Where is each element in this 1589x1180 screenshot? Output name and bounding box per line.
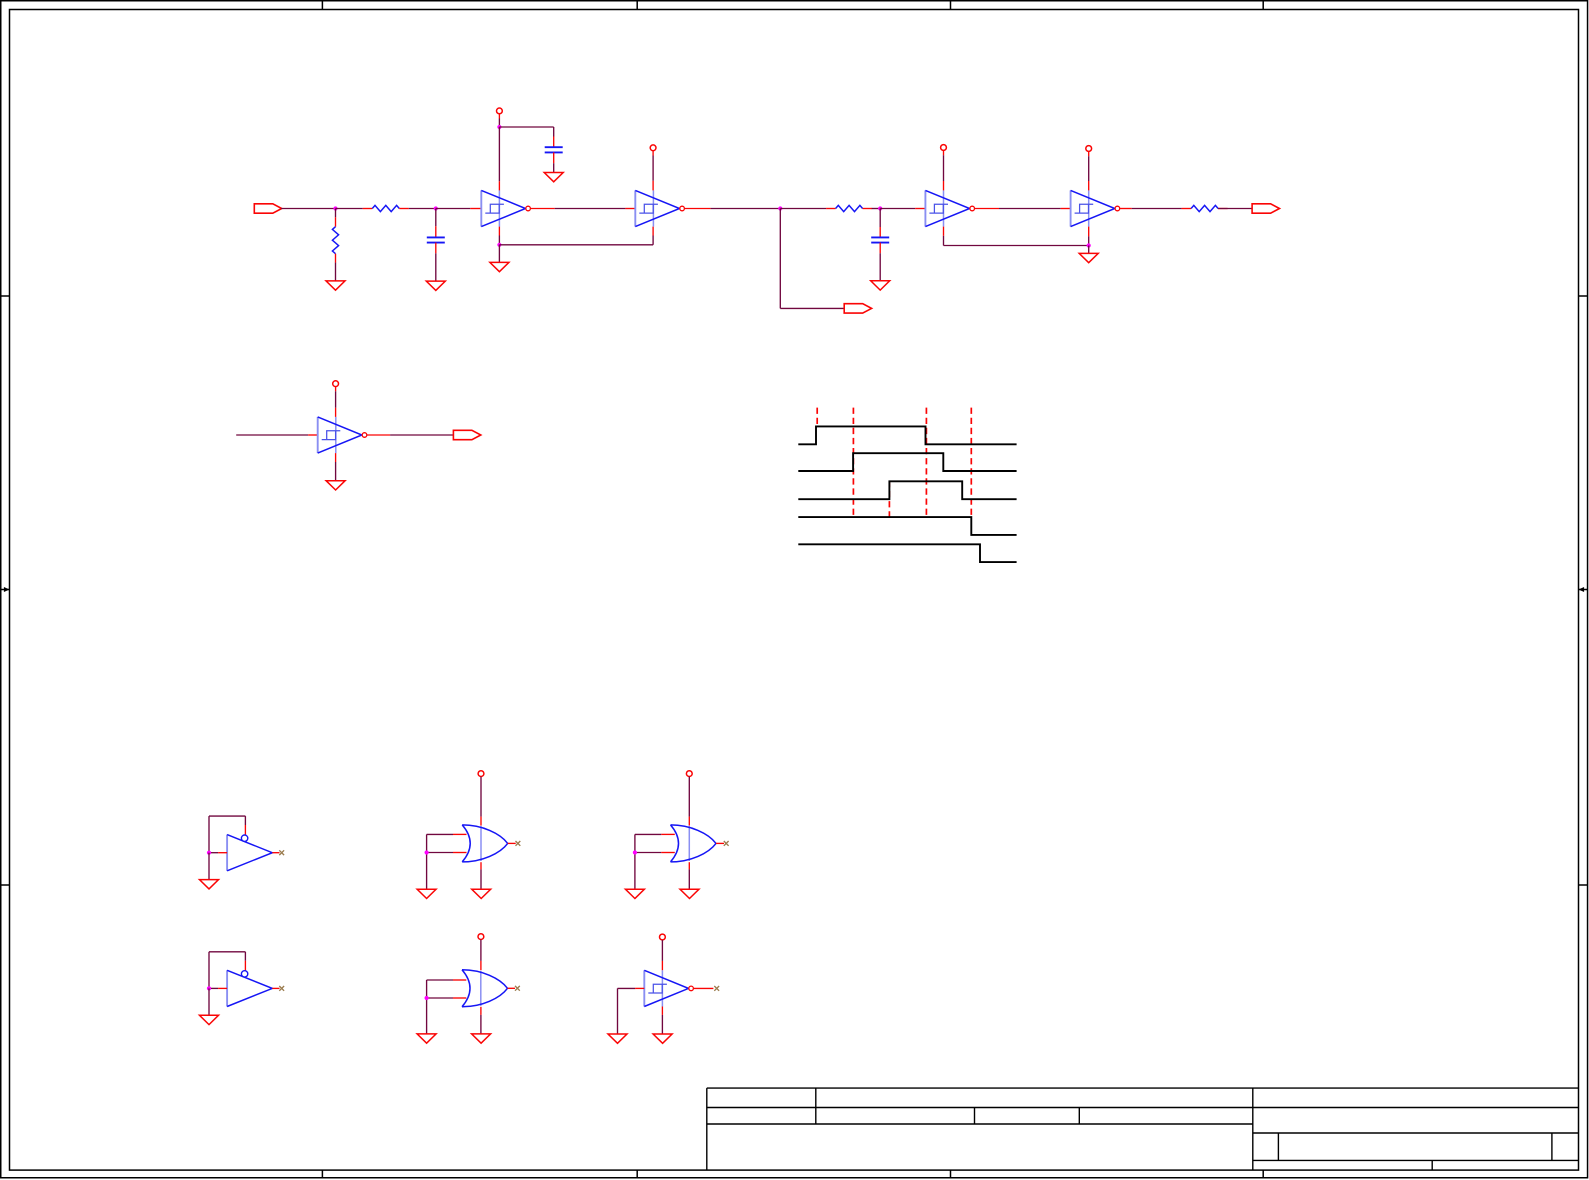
wire inputs tied down [426,980,428,1034]
wire U5B gnd to ground [688,869,690,889]
junction node E [778,206,782,210]
wire R2 to ground [335,263,337,281]
wire U3A gnd to ground [335,462,337,481]
wire node F to U2A input [880,208,915,210]
wire VCC to U2B vcc pin [1088,156,1090,181]
timing diagram [798,408,1016,562]
ground under C1 [426,281,445,290]
wire U5C input 2 [427,997,453,999]
pin U4A enable [244,825,246,835]
wire inputs tied down [426,834,428,889]
ground under U3A [326,481,345,490]
wire VCC to U1B vcc pin [652,156,654,181]
resistor R2 shunt [332,217,338,262]
pin U5B input 2 [661,852,675,854]
wire U1B out to node E [711,208,781,210]
wire input tied down [617,988,619,1034]
ground under R2 [326,281,345,290]
wire U2B out to R4 [1132,208,1182,210]
wire C3 to ground [879,253,881,281]
pin U2B power [1088,152,1090,157]
pin U2B output [1120,208,1132,210]
junction U5A input node [425,850,429,854]
pin U1B input [625,208,635,210]
ground under U2B [1079,253,1098,262]
wire VCC to U3A vcc pin [335,391,337,408]
wire U2A gnd to node G [944,245,1089,247]
schmitt buffer U3A [318,417,367,453]
wire VCC to node C [498,119,500,128]
ground under U5B inputs [625,889,644,898]
wire node C to C2 [499,126,553,128]
pin U4B output (no connect) [272,987,279,989]
wire U1A out to U1B in [555,208,626,210]
pin U5B gnd [688,862,690,869]
pin U3A vcc [335,408,337,417]
pin U5C vcc [480,961,482,970]
pin U2A input [915,208,925,210]
wire down to ground [208,853,210,880]
ground under C3 [871,281,890,290]
schmitt buffer U1B [635,190,684,226]
waveform 3 [798,481,1016,499]
wire U5B input 2 [635,852,661,854]
pin U5B input 1 [661,833,675,835]
pin U1B vcc [652,181,654,191]
junction node F [878,206,882,210]
timing cursor t5 [970,408,972,517]
ground under U6A [653,1034,672,1043]
pin U5A input 1 [453,833,467,835]
schmitt buffer U6A [644,970,693,1006]
inverter U4A [227,835,272,871]
pin U1B power [652,151,654,156]
pin U3A power [335,387,337,392]
VCC power pin of U5C [478,934,484,940]
pin U4B enable [244,961,246,971]
inverter U4B [227,970,272,1006]
wire to U4A input [209,852,218,854]
pin U2A vcc [943,181,945,190]
pin U6A input [635,987,644,989]
or gate U5A [462,825,508,862]
pin U1A input [470,208,481,210]
junction node B [434,206,438,210]
wire VCC to U2A vcc pin [943,155,945,181]
wire U5A input 2 [427,852,453,854]
wire VCC to U6A [661,940,663,961]
wire U2A gnd down [943,236,945,246]
pin U1A vcc [498,181,500,190]
pin U3A output [367,434,390,436]
wire feedback down [244,816,246,825]
or gate U5B [671,825,717,862]
ground under U5B [680,889,699,898]
junction U5C input node [425,996,429,1000]
pin U6A output (no connect) [694,987,714,989]
wire U2A out to U2B in [999,208,1061,210]
junction U4A input node [207,851,211,855]
wire node E to R3 [780,208,826,210]
resistor R1 series [363,205,409,211]
junction node G [1087,243,1091,247]
wire node E down [779,209,781,309]
port P4 output [453,430,480,439]
VCC power pin of U2A [941,145,947,151]
wire R1 to node B [409,208,436,210]
VCC power pin of U1B [650,145,656,151]
capacitor C1 [427,237,445,242]
wire U2B gnd down [1088,236,1090,245]
junction U5B input node [633,850,637,854]
timing cursor t4 [925,408,927,517]
wire U5B input 1 [635,833,661,835]
wire U6A gnd to ground [661,1015,663,1034]
pin U5A gnd [480,862,482,869]
ground under U1A [490,262,509,271]
schmitt buffer U2A [925,190,974,226]
pin U5C gnd [480,1007,482,1015]
pin U5A output (no connect) [508,842,516,844]
wire U5A gnd to ground [480,869,482,889]
pin U1A output [531,208,555,210]
waveform 4 [798,517,1016,535]
wire feedback left down [208,816,210,853]
wire P1 to node A [281,208,335,210]
wire C1 to ground [435,253,437,281]
wire U5C input 1 [427,979,453,981]
wire U4A feedback top [209,815,245,817]
pin U6A gnd [661,1007,663,1015]
ground under U5A inputs [417,889,436,898]
ground under U4B [200,1015,219,1024]
pin U1A gnd [498,227,500,236]
wire node F down to C3 [879,209,881,228]
pin U2B input [1061,208,1071,210]
timing cursor t1 [816,408,818,425]
pin U1B output [685,208,711,210]
wire node A down to R2 [335,209,337,218]
capacitor C2 decoupling [545,147,563,152]
wire node B to U1A input [436,208,471,210]
pin U2A power [943,151,945,156]
wire node G to ground [1088,246,1090,254]
timing cursor t3 [888,481,890,517]
title block (empty) [707,1088,1579,1170]
schmitt buffer U1A [481,190,530,226]
pin U3A input [308,434,318,436]
junction node C [497,125,501,129]
wire VCC to U5A [480,777,482,817]
or gate U5C [462,970,508,1007]
ground under U5C [472,1034,491,1043]
pin U6A vcc [661,961,663,970]
VCC power pin of U2B [1086,146,1092,152]
wire R3 to node F [872,208,881,210]
timing cursor t2 [852,408,854,517]
junction node D [497,243,501,247]
pin U3A gnd [335,453,337,462]
VCC power pin of U6A [660,934,666,940]
wire node A to R1 [336,208,363,210]
pin U2A output [975,208,999,210]
VCC power pin of U5B [686,771,692,777]
wire C2 to ground [553,163,555,172]
port P2 tap output [844,304,871,313]
pin U4B input [218,987,227,989]
wire feedback down [244,952,246,961]
pin U5C output (no connect) [508,987,516,989]
pin U5C input 1 [453,979,466,981]
wire node D to ground [498,245,500,263]
schmitt buffer U2B [1071,190,1120,226]
ground under U5C inputs [417,1034,436,1043]
wire U6A input [618,987,636,989]
wire node D to U1B gnd [499,244,653,246]
pin U5A input 2 [453,852,467,854]
wire input to U3A [236,434,308,436]
wire to U4B input [209,987,218,989]
pin U5A vcc [480,817,482,826]
pin U2B gnd [1088,227,1090,237]
wire to port P2 [780,307,844,309]
resistor R4 series [1182,205,1228,211]
pin U5B output (no connect) [716,842,724,844]
VCC power pin of U3A [333,381,339,387]
wire node C to U1A vcc pin [498,127,500,181]
pin U2A gnd [943,227,945,236]
pin U5C input 2 [453,997,466,999]
pin U1B gnd [652,227,654,236]
port P1 input connector [254,204,281,213]
junction U4B input node [207,986,211,990]
resistor R3 series [826,205,872,211]
VCC power pin of U5A [478,771,484,777]
pin U5B vcc [688,817,690,826]
capacitor C3 [871,237,889,242]
wire U1A gnd pin down [498,236,500,245]
ground under U5A [472,889,491,898]
wire U4B feedback top [209,951,245,953]
wire U5C gnd to ground [480,1015,482,1034]
wire down to C2 [553,127,555,137]
wire down to ground [208,988,210,1015]
ground under U4A [200,880,219,889]
wire feedback left down [208,952,210,989]
VCC power pin of U1A [497,108,503,114]
wire node B down to C1 [435,209,437,227]
ground under U6A input [608,1034,627,1043]
waveform 5 [798,544,1016,562]
ground under C2 [544,173,563,182]
waveform 2 [798,453,1016,471]
pin U1A power [498,114,500,119]
pin U2B vcc [1088,181,1090,190]
wire U3A out to port P4 [390,434,453,436]
wire VCC to U5B [688,777,690,817]
wire inputs tied down [634,834,636,889]
waveform 1 [798,426,1016,444]
pin U4A input [218,852,227,854]
wire R4 to port P3 [1218,208,1252,210]
wire up to U1B gnd pin [652,236,654,245]
port P3 output connector [1252,204,1279,213]
pin U4A output (no connect) [272,852,279,854]
wire VCC to U5C [480,940,482,961]
wire U5A input 1 [427,833,453,835]
junction node A [333,206,337,210]
